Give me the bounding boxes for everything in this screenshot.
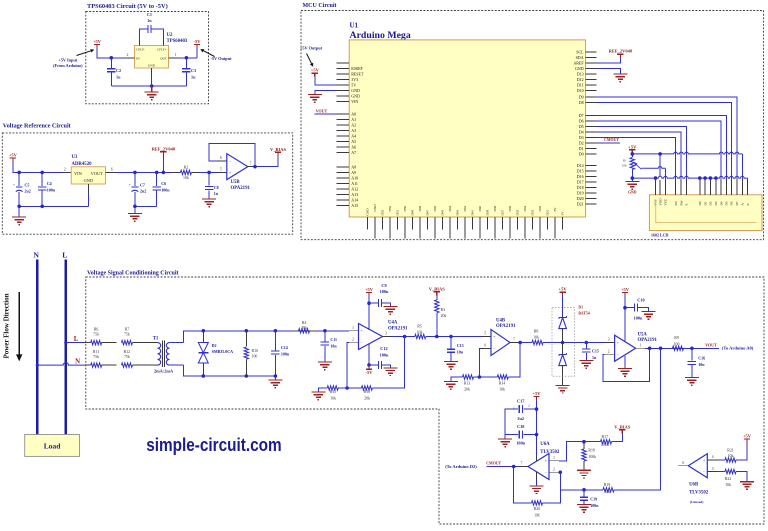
- svg-text:CFLY-: CFLY-: [136, 48, 145, 52]
- svg-text:100n: 100n: [380, 289, 389, 294]
- svg-text:BAT54: BAT54: [578, 312, 589, 316]
- svg-text:D32: D32: [538, 205, 542, 211]
- svg-text:A14: A14: [351, 197, 358, 202]
- svg-text:R18: R18: [588, 448, 595, 452]
- svg-text:D49: D49: [411, 209, 415, 215]
- svg-text:C13: C13: [457, 343, 464, 348]
- svg-text:D16: D16: [577, 174, 584, 179]
- svg-text:L: L: [62, 251, 67, 260]
- svg-text:1: 1: [553, 456, 555, 460]
- svg-text:D42: D42: [463, 205, 467, 211]
- svg-text:D0: D0: [579, 151, 584, 156]
- svg-text:R15: R15: [330, 390, 337, 394]
- svg-text:D3: D3: [579, 135, 584, 140]
- svg-text:R13: R13: [464, 381, 471, 385]
- svg-text:1u: 1u: [147, 18, 152, 23]
- svg-text:VSS: VSS: [654, 199, 658, 205]
- svg-text:A0: A0: [351, 111, 356, 116]
- svg-text:N: N: [33, 251, 39, 260]
- svg-text:TLV3502: TLV3502: [540, 450, 560, 455]
- svg-text:10k: 10k: [604, 490, 610, 494]
- svg-text:2: 2: [553, 468, 555, 472]
- svg-text:D20: D20: [577, 196, 584, 201]
- svg-text:OPA2191: OPA2191: [496, 324, 516, 329]
- svg-text:C12: C12: [380, 346, 387, 351]
- svg-text:C2: C2: [116, 68, 121, 73]
- svg-text:3: 3: [712, 467, 714, 471]
- svg-text:5: 5: [484, 332, 486, 336]
- svg-text:VIN: VIN: [351, 99, 358, 104]
- svg-text:D6: D6: [579, 118, 584, 123]
- svg-text:+5V: +5V: [311, 68, 320, 73]
- svg-text:U6A: U6A: [540, 442, 550, 447]
- svg-text:R2: R2: [184, 165, 189, 169]
- svg-text:A4: A4: [351, 133, 356, 138]
- svg-text:GND: GND: [351, 93, 360, 98]
- svg-text:20k: 20k: [301, 326, 307, 330]
- svg-text:V_BIAS: V_BIAS: [270, 147, 287, 152]
- svg-text:D8: D8: [579, 100, 584, 105]
- svg-text:6: 6: [111, 168, 113, 172]
- svg-text:3: 3: [385, 331, 387, 335]
- svg-text:VEE: VEE: [664, 199, 668, 205]
- svg-text:-5V Output: -5V Output: [210, 56, 232, 61]
- svg-text:D51: D51: [396, 209, 400, 215]
- svg-text:A11: A11: [351, 181, 358, 186]
- svg-text:VOUT: VOUT: [705, 343, 717, 348]
- svg-text:R14: R14: [499, 381, 506, 385]
- svg-text:100k: 100k: [588, 455, 596, 459]
- svg-text:C11: C11: [330, 337, 337, 342]
- svg-text:U3: U3: [72, 155, 78, 160]
- svg-text:D53: D53: [381, 209, 385, 215]
- svg-text:10k: 10k: [728, 454, 734, 458]
- svg-text:7: 7: [521, 462, 523, 466]
- svg-text:2: 2: [127, 53, 129, 57]
- svg-text:D2: D2: [579, 140, 584, 145]
- svg-text:2: 2: [528, 404, 530, 408]
- svg-text:1n: 1n: [214, 191, 219, 196]
- svg-text:2u2: 2u2: [517, 416, 524, 421]
- svg-text:10k: 10k: [622, 164, 627, 168]
- svg-text:C6: C6: [161, 181, 166, 186]
- svg-text:D14: D14: [577, 163, 584, 168]
- svg-text:A12: A12: [351, 186, 358, 191]
- svg-text:D36: D36: [508, 205, 512, 211]
- svg-text:A8: A8: [351, 164, 356, 169]
- svg-text:L: L: [74, 336, 79, 343]
- svg-text:5: 5: [220, 168, 222, 172]
- svg-text:2u2: 2u2: [140, 189, 146, 194]
- svg-text:R4: R4: [302, 321, 307, 325]
- svg-text:D1: D1: [579, 146, 584, 151]
- svg-text:(From Arduino): (From Arduino): [53, 63, 83, 68]
- svg-text:E: E: [685, 203, 689, 205]
- svg-text:R11: R11: [93, 350, 99, 354]
- svg-text:RS: RS: [674, 201, 678, 205]
- svg-text:7: 7: [513, 338, 515, 342]
- svg-text:IOREF: IOREF: [351, 66, 363, 71]
- svg-text:U2: U2: [167, 33, 173, 38]
- svg-text:VOUT: VOUT: [91, 171, 104, 176]
- svg-text:D19: D19: [577, 190, 584, 195]
- svg-text:D47: D47: [426, 209, 430, 215]
- svg-text:V_BIAS: V_BIAS: [614, 424, 631, 429]
- svg-text:U6B: U6B: [689, 482, 699, 487]
- svg-text:D4: D4: [719, 201, 723, 205]
- svg-text:D2: D2: [709, 201, 713, 205]
- svg-text:100n: 100n: [47, 187, 56, 192]
- svg-text:2u2: 2u2: [25, 189, 31, 194]
- svg-text:5V: 5V: [561, 211, 565, 216]
- svg-text:100: 100: [252, 355, 258, 359]
- svg-text:N: N: [75, 358, 80, 365]
- svg-text:3: 3: [608, 338, 610, 342]
- svg-text:10n: 10n: [330, 344, 337, 349]
- svg-text:D13: D13: [577, 71, 584, 76]
- svg-text:+5V: +5V: [621, 287, 630, 292]
- svg-text:C8: C8: [214, 185, 219, 190]
- svg-text:R7: R7: [125, 328, 130, 332]
- svg-text:TPS60403 Circuit (5V to -5V): TPS60403 Circuit (5V to -5V): [87, 3, 168, 10]
- svg-text:A2: A2: [351, 122, 356, 127]
- svg-text:D15: D15: [577, 168, 584, 173]
- svg-text:(To Arduino D2): (To Arduino D2): [445, 464, 477, 469]
- svg-text:D45: D45: [441, 209, 445, 215]
- svg-text:1: 1: [352, 326, 354, 330]
- svg-text:-5V: -5V: [194, 39, 202, 44]
- svg-text:+5V: +5V: [93, 39, 102, 44]
- svg-text:CFLY+: CFLY+: [157, 48, 167, 52]
- svg-text:Voltage Signal Conditioning Ci: Voltage Signal Conditioning Circuit: [87, 270, 179, 276]
- svg-text:4: 4: [712, 455, 714, 459]
- svg-text:D11: D11: [577, 82, 584, 87]
- svg-text:1: 1: [640, 343, 642, 347]
- svg-text:GND: GND: [84, 178, 94, 183]
- svg-text:75k: 75k: [93, 333, 99, 337]
- svg-text:D17: D17: [577, 179, 584, 184]
- svg-text:3V3: 3V3: [351, 77, 358, 82]
- svg-text:A7: A7: [351, 150, 356, 155]
- svg-text:R21: R21: [727, 448, 734, 452]
- svg-text:100n: 100n: [590, 503, 599, 508]
- svg-text:+5V: +5V: [365, 287, 374, 292]
- svg-text:SMBJ5.0CA: SMBJ5.0CA: [212, 349, 234, 354]
- svg-text:GND: GND: [351, 88, 360, 93]
- svg-text:-5V: -5V: [366, 370, 374, 375]
- svg-text:D10: D10: [577, 88, 584, 93]
- svg-text:GND: GND: [148, 64, 156, 68]
- svg-text:+5V: +5V: [532, 391, 541, 396]
- svg-text:1602 LCD: 1602 LCD: [651, 233, 669, 238]
- svg-text:R3: R3: [441, 308, 446, 312]
- svg-text:C16: C16: [698, 355, 705, 360]
- svg-text:A1: A1: [351, 117, 356, 122]
- svg-text:R12: R12: [124, 350, 131, 354]
- svg-text:100n: 100n: [516, 440, 525, 445]
- svg-text:A10: A10: [351, 175, 358, 180]
- svg-text:U1: U1: [350, 22, 359, 30]
- svg-text:R10: R10: [252, 349, 259, 353]
- svg-text:TPS60403: TPS60403: [167, 39, 188, 44]
- svg-text:2: 2: [608, 349, 610, 353]
- svg-text:D33: D33: [531, 209, 535, 215]
- svg-text:1u: 1u: [116, 75, 121, 80]
- svg-text:20k: 20k: [464, 388, 470, 392]
- svg-text:1M: 1M: [534, 513, 540, 517]
- svg-text:C7: C7: [140, 183, 145, 188]
- svg-text:AREF: AREF: [573, 60, 584, 65]
- svg-text:20k: 20k: [441, 314, 447, 318]
- svg-text:+5V: +5V: [628, 144, 637, 149]
- svg-text:10k: 10k: [533, 336, 539, 340]
- svg-text:OPA2191: OPA2191: [388, 326, 408, 331]
- svg-text:D3: D3: [714, 201, 718, 205]
- svg-text:1u: 1u: [191, 75, 196, 80]
- svg-text:GND: GND: [628, 191, 637, 195]
- svg-text:C19: C19: [590, 496, 597, 501]
- svg-text:TLV3502: TLV3502: [689, 490, 709, 495]
- svg-text:CMOUT: CMOUT: [486, 462, 501, 466]
- svg-text:Voltage Reference Circuit: Voltage Reference Circuit: [3, 123, 72, 130]
- svg-text:D18: D18: [577, 185, 584, 190]
- svg-text:10n: 10n: [457, 349, 464, 354]
- svg-text:GND: GND: [575, 66, 584, 71]
- svg-text:D35: D35: [516, 209, 520, 215]
- svg-text:+: +: [13, 183, 15, 187]
- svg-text:D48: D48: [418, 205, 422, 211]
- svg-text:100n: 100n: [634, 316, 643, 321]
- svg-text:C18: C18: [517, 424, 524, 429]
- svg-text:D2: D2: [212, 343, 217, 348]
- svg-text:MCU Circuit: MCU Circuit: [303, 3, 337, 9]
- svg-text:D43: D43: [456, 209, 460, 215]
- svg-text:R17: R17: [602, 435, 609, 439]
- svg-text:D44: D44: [448, 205, 452, 211]
- svg-text:A15: A15: [351, 203, 358, 208]
- svg-text:A5: A5: [351, 139, 356, 144]
- svg-text:A3: A3: [351, 128, 356, 133]
- svg-text:D31: D31: [546, 209, 550, 215]
- svg-text:U5B: U5B: [231, 180, 241, 185]
- svg-text:SDA: SDA: [576, 55, 584, 60]
- svg-text:D12: D12: [577, 77, 584, 82]
- svg-text:ADR4520: ADR4520: [72, 162, 93, 167]
- svg-text:VDD: VDD: [658, 198, 662, 206]
- svg-text:REF_2V048: REF_2V048: [152, 146, 176, 151]
- svg-text:+: +: [129, 183, 131, 187]
- svg-text:CMOUT: CMOUT: [604, 138, 619, 142]
- svg-text:D4: D4: [579, 129, 584, 134]
- svg-text:SCL: SCL: [576, 49, 584, 54]
- svg-text:D41: D41: [471, 209, 475, 215]
- svg-text:R6: R6: [94, 328, 99, 332]
- svg-text:D50: D50: [403, 205, 407, 211]
- svg-text:20k: 20k: [364, 397, 370, 401]
- svg-text:VIN: VIN: [74, 171, 83, 176]
- svg-text:U4B: U4B: [496, 318, 506, 323]
- svg-text:+5V: +5V: [9, 153, 18, 158]
- svg-text:D40: D40: [478, 205, 482, 211]
- svg-text:Arduino Mega: Arduino Mega: [350, 30, 411, 41]
- svg-text:D39: D39: [486, 209, 490, 215]
- svg-text:RW: RW: [679, 199, 683, 205]
- svg-text:C14: C14: [281, 345, 288, 350]
- svg-text:C15: C15: [592, 348, 599, 353]
- svg-text:R20: R20: [534, 507, 541, 511]
- svg-text:C5: C5: [25, 183, 30, 188]
- svg-text:5V: 5V: [553, 207, 557, 212]
- svg-text:2: 2: [64, 168, 66, 172]
- svg-text:D5: D5: [725, 201, 729, 205]
- svg-text:(Unused): (Unused): [690, 500, 704, 504]
- svg-text:GND: GND: [366, 208, 370, 216]
- svg-text:Power Flow Direction: Power Flow Direction: [3, 293, 11, 358]
- svg-text:D34: D34: [523, 205, 527, 211]
- svg-text:+5V Output: +5V Output: [300, 46, 323, 51]
- svg-text:100: 100: [674, 342, 680, 346]
- svg-text:R19: R19: [604, 483, 611, 487]
- svg-text:C4: C4: [47, 181, 52, 186]
- svg-text:simple-circuit.com: simple-circuit.com: [146, 435, 281, 455]
- svg-text:D6: D6: [730, 201, 734, 205]
- svg-text:(To Arduino A0): (To Arduino A0): [722, 345, 754, 350]
- svg-text:2: 2: [352, 337, 354, 341]
- svg-text:R22: R22: [725, 477, 732, 481]
- svg-text:10k: 10k: [725, 483, 731, 487]
- svg-text:U5A: U5A: [638, 332, 648, 337]
- svg-text:C1: C1: [147, 12, 152, 17]
- svg-text:R5: R5: [417, 325, 422, 329]
- svg-text:7: 7: [250, 162, 252, 166]
- svg-text:GND: GND: [373, 204, 377, 212]
- svg-text:U4A: U4A: [388, 321, 398, 326]
- svg-text:D0: D0: [698, 201, 702, 205]
- svg-text:D7: D7: [579, 113, 584, 118]
- svg-text:V_BIAS: V_BIAS: [429, 286, 446, 291]
- svg-text:REF_2V048: REF_2V048: [609, 49, 633, 54]
- svg-text:1: 1: [175, 53, 177, 57]
- svg-text:VOUT: VOUT: [316, 109, 328, 114]
- svg-text:C17: C17: [517, 398, 525, 403]
- svg-text:+5V Input: +5V Input: [58, 58, 78, 63]
- svg-text:5V: 5V: [351, 82, 356, 87]
- svg-text:R1: R1: [623, 159, 627, 163]
- svg-text:D1: D1: [703, 201, 707, 205]
- svg-text:+5V: +5V: [743, 434, 752, 439]
- svg-text:OPA2191: OPA2191: [231, 186, 251, 191]
- svg-text:75k: 75k: [124, 355, 130, 359]
- svg-text:10k: 10k: [499, 388, 505, 392]
- svg-text:10n: 10n: [698, 362, 705, 367]
- svg-text:10k: 10k: [417, 331, 423, 335]
- svg-text:OUT: OUT: [160, 56, 167, 60]
- svg-text:C10: C10: [637, 297, 644, 302]
- svg-text:2mA:2mA: 2mA:2mA: [154, 369, 174, 374]
- svg-text:6: 6: [220, 156, 222, 160]
- svg-text:R16: R16: [364, 390, 371, 394]
- svg-text:10k: 10k: [330, 397, 336, 401]
- svg-text:6: 6: [484, 344, 486, 348]
- svg-text:A9: A9: [351, 170, 356, 175]
- svg-text:T1: T1: [153, 336, 159, 341]
- svg-text:100k: 100k: [601, 443, 609, 447]
- svg-text:R9: R9: [674, 336, 679, 340]
- svg-text:+5V: +5V: [559, 287, 568, 292]
- svg-text:100n: 100n: [281, 352, 290, 357]
- svg-text:D9: D9: [579, 94, 584, 99]
- svg-text:D38: D38: [493, 205, 497, 211]
- svg-text:1n: 1n: [592, 355, 597, 360]
- svg-text:A6: A6: [351, 144, 356, 149]
- svg-text:D1: D1: [578, 306, 583, 310]
- svg-text:A13: A13: [351, 192, 358, 197]
- svg-text:R8: R8: [534, 329, 539, 333]
- svg-text:D21: D21: [577, 201, 584, 206]
- svg-text:C9: C9: [381, 283, 386, 288]
- svg-text:D7: D7: [735, 201, 739, 205]
- svg-text:RESET: RESET: [351, 71, 364, 76]
- svg-text:Load: Load: [44, 442, 62, 451]
- svg-text:D5: D5: [579, 124, 584, 129]
- svg-text:D52: D52: [388, 205, 392, 211]
- svg-text:75k: 75k: [124, 333, 130, 337]
- svg-text:C3: C3: [191, 68, 196, 73]
- svg-text:10k: 10k: [183, 176, 189, 180]
- svg-text:100n: 100n: [380, 352, 389, 357]
- svg-text:100n: 100n: [161, 187, 170, 192]
- svg-text:OPA2191: OPA2191: [638, 338, 658, 343]
- svg-text:D37: D37: [501, 209, 505, 215]
- svg-text:6: 6: [682, 461, 684, 465]
- svg-text:D46: D46: [433, 205, 437, 211]
- svg-text:75k: 75k: [93, 355, 99, 359]
